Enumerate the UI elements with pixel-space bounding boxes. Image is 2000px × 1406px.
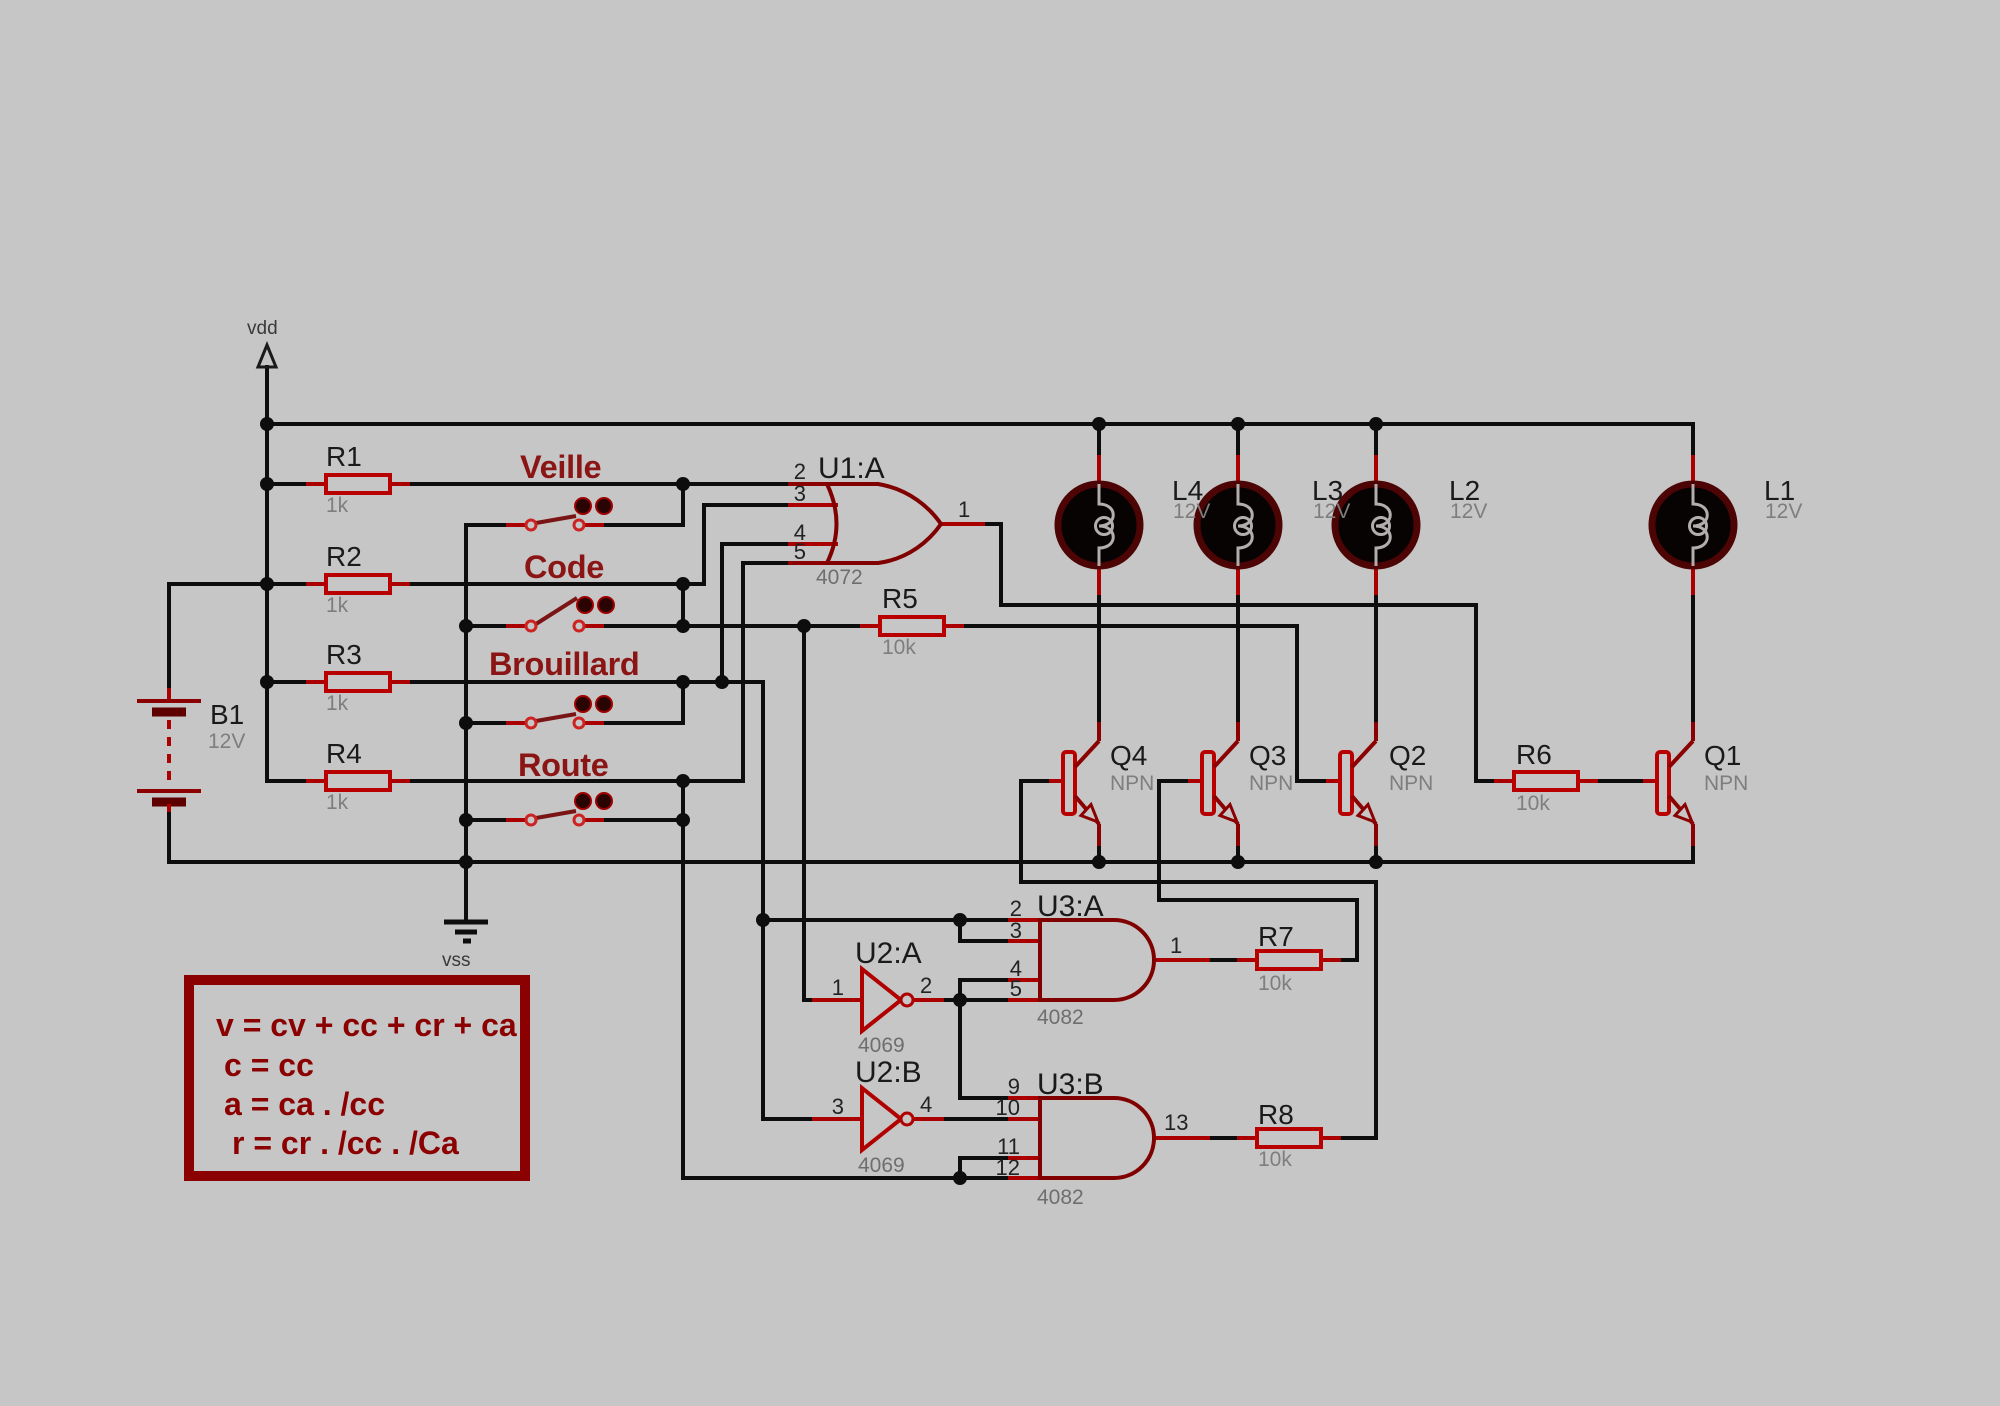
svg-text:3: 3	[1010, 918, 1022, 943]
wire L4 top column	[1097, 424, 1101, 483]
wire U2:A output row to U3:A pin5	[913, 998, 1040, 1002]
wire U3:B pin12 row	[683, 1176, 1040, 1180]
svg-text:1: 1	[832, 975, 844, 1000]
wire U2:B output row to U3:B pin10	[913, 1117, 1040, 1121]
wire Veille switch right	[583, 523, 683, 527]
svg-text:1: 1	[958, 497, 970, 522]
svg-text:12V: 12V	[208, 730, 245, 753]
svg-text:r = cr . /cc . /Ca: r = cr . /cc . /Ca	[232, 1125, 459, 1161]
svg-text:R6: R6	[1516, 739, 1552, 770]
svg-text:R1: R1	[326, 441, 362, 472]
wire L3 bottom to Q3 collector	[1236, 567, 1240, 722]
wire switch common column x466	[464, 525, 468, 862]
wire Brouillard switch left	[466, 721, 527, 725]
svg-text:1k: 1k	[326, 494, 349, 517]
wire R7 riser x1357	[1355, 900, 1359, 960]
wire U1 pin5 row	[743, 561, 793, 565]
transistor Q3	[1188, 722, 1238, 846]
wire R3 row (Brouillard net)	[267, 680, 763, 684]
svg-text:12V: 12V	[1173, 500, 1210, 523]
wire U3:A pin4 riser	[958, 980, 962, 1000]
wire Code switch left	[466, 624, 527, 628]
svg-text:12V: 12V	[1765, 500, 1802, 523]
svg-text:3: 3	[832, 1094, 844, 1119]
svg-text:R8: R8	[1258, 1099, 1294, 1130]
svg-text:5: 5	[794, 539, 806, 564]
battery B1	[137, 688, 201, 812]
wire Brouillard switch right	[583, 721, 683, 725]
wire battery plus column	[167, 584, 171, 688]
wire U1 output to corner	[985, 522, 1001, 526]
wire Brouillard drop x763	[761, 682, 765, 1119]
resistor R8	[1237, 1129, 1341, 1147]
lamp L3	[1197, 455, 1279, 595]
svg-text:10k: 10k	[1258, 1148, 1292, 1171]
svg-text:Q2: Q2	[1389, 740, 1426, 771]
wire R6 left	[1476, 779, 1514, 783]
transistor Q1	[1643, 722, 1693, 846]
wire Q3 emitter to ground	[1236, 846, 1240, 862]
inverter U2:B (4069)	[812, 1088, 944, 1150]
svg-text:U2:B: U2:B	[855, 1056, 922, 1089]
wire R4 row (Route net)	[267, 779, 743, 783]
ground vss symbol	[444, 922, 488, 941]
svg-text:B1: B1	[210, 699, 244, 730]
switch Route (closed)	[506, 793, 612, 825]
and-gate U3:B (4082)	[1008, 1098, 1210, 1178]
svg-text:R2: R2	[326, 541, 362, 572]
svg-text:NPN: NPN	[1110, 772, 1154, 795]
resistor R4	[306, 772, 410, 790]
svg-text:12V: 12V	[1313, 500, 1350, 523]
wire R8 riser x1376	[1374, 882, 1378, 1138]
wire R5 to Q2 base drop x1297	[1295, 626, 1299, 781]
wire vdd top rail	[267, 422, 1693, 426]
svg-text:4082: 4082	[1037, 1186, 1084, 1209]
lamp L2	[1335, 455, 1417, 595]
wire U1 pin4 riser x722	[720, 544, 724, 682]
svg-text:1: 1	[1170, 933, 1182, 958]
resistor R7	[1237, 951, 1341, 969]
wire L2 bottom to Q2 collector	[1374, 567, 1378, 722]
svg-text:R5: R5	[882, 583, 918, 614]
svg-text:R4: R4	[326, 738, 362, 769]
svg-text:Q1: Q1	[1704, 740, 1741, 771]
resistor R6	[1494, 772, 1598, 790]
wire Brouillard riser x683	[681, 682, 685, 723]
equation box	[189, 980, 525, 1176]
wire U3:A pin3 riser	[958, 920, 962, 941]
wire R6 right to Q1 base	[1578, 779, 1657, 783]
wire R5 row to Q2 branch	[944, 624, 1297, 628]
wire Q4 base row	[1021, 779, 1063, 783]
wire L1 bottom to Q1 collector	[1691, 567, 1695, 722]
wire r net row y882	[1021, 880, 1376, 884]
svg-text:4082: 4082	[1037, 1006, 1084, 1029]
svg-text:4: 4	[920, 1092, 932, 1117]
svg-text:U2:A: U2:A	[855, 937, 922, 970]
svg-text:5: 5	[1010, 976, 1022, 1001]
wire U2:B input row	[763, 1117, 836, 1121]
svg-text:vss: vss	[442, 950, 471, 971]
svg-text:Veille: Veille	[520, 449, 601, 485]
svg-text:10k: 10k	[1516, 792, 1550, 815]
wire vdd column	[265, 367, 269, 781]
svg-text:Route: Route	[518, 747, 609, 783]
svg-text:12V: 12V	[1450, 500, 1487, 523]
svg-text:Q4: Q4	[1110, 740, 1147, 771]
wire Route switch right	[583, 818, 683, 822]
svg-text:NPN: NPN	[1704, 772, 1748, 795]
resistor R5	[860, 617, 964, 635]
wire Route switch left	[466, 818, 527, 822]
wire ground row	[169, 860, 1693, 864]
svg-text:a = ca . /cc: a = ca . /cc	[224, 1086, 385, 1122]
svg-text:U1:A: U1:A	[818, 452, 885, 485]
svg-text:1k: 1k	[326, 692, 349, 715]
switch Code (open)	[506, 597, 614, 631]
lamp L1	[1652, 455, 1734, 595]
svg-text:Brouillard: Brouillard	[489, 646, 640, 682]
svg-text:4069: 4069	[858, 1154, 905, 1177]
wire U1 output drop x1001	[999, 524, 1003, 605]
svg-text:U3:A: U3:A	[1037, 890, 1104, 923]
svg-text:12: 12	[996, 1155, 1020, 1180]
svg-text:R3: R3	[326, 639, 362, 670]
wire R8 right	[1321, 1136, 1376, 1140]
svg-text:13: 13	[1164, 1110, 1188, 1135]
svg-text:c = cc: c = cc	[224, 1047, 314, 1083]
wire U2:A input row	[804, 998, 836, 1002]
and-gate U3:A (4082)	[1008, 920, 1210, 1000]
wire U1 pin3 riser x704	[702, 505, 706, 584]
wire U1 pin5 riser x743	[741, 563, 745, 781]
svg-text:10: 10	[996, 1095, 1020, 1120]
switch Veille (closed)	[506, 498, 612, 530]
lamp L4	[1058, 455, 1140, 595]
wire Veille switch left	[466, 523, 527, 527]
wire Q4 base drop x1021	[1019, 781, 1023, 882]
wire U3:B pin11 row	[960, 1156, 1040, 1160]
svg-text:10k: 10k	[1258, 972, 1292, 995]
svg-text:NPN: NPN	[1249, 772, 1293, 795]
wire U1 pin3 row	[704, 503, 836, 507]
svg-text:4072: 4072	[816, 566, 863, 589]
wire R1 row (Veille net to U1 pin 2)	[267, 482, 793, 486]
wire Q3 base drop x1159	[1157, 781, 1161, 900]
wire Q2 emitter to ground	[1374, 846, 1378, 862]
wire U2:A out to U3:B pin9 drop x960	[958, 1000, 962, 1098]
svg-text:10k: 10k	[882, 636, 916, 659]
svg-text:3: 3	[794, 481, 806, 506]
wire Q4 emitter to ground	[1097, 846, 1101, 862]
resistor R1	[306, 475, 410, 493]
wire Q1 emitter to ground	[1691, 846, 1695, 862]
wire Q2 base row	[1297, 779, 1340, 783]
wire U3:B pin9 row	[960, 1096, 1040, 1100]
wire U3:A output row	[1155, 958, 1257, 962]
wire v net row y605	[1001, 603, 1476, 607]
wire U1 pin4 row	[722, 542, 836, 546]
wire L1 top column	[1691, 424, 1695, 483]
wire v net drop x1476	[1474, 605, 1478, 781]
wire Route column x683 down to U3:B pin12	[681, 781, 685, 1178]
svg-text:1k: 1k	[326, 594, 349, 617]
wire L2 top column	[1374, 424, 1378, 483]
wire U3:B output row	[1155, 1136, 1257, 1140]
svg-text:vdd: vdd	[247, 318, 278, 339]
wire Veille riser x683	[681, 484, 685, 525]
wire ground stem	[464, 862, 468, 920]
resistor R3	[306, 673, 410, 691]
svg-text:R7: R7	[1258, 921, 1294, 952]
transistor Q2	[1326, 722, 1376, 846]
wire Code switch right to R5	[583, 624, 880, 628]
wire Code to U2:A input drop x804	[802, 626, 806, 1000]
or-gate U1:A (4072)	[788, 484, 985, 563]
wire Code riser x683	[681, 584, 685, 626]
wire R7 right	[1321, 958, 1357, 962]
transistor Q4	[1049, 722, 1099, 846]
svg-text:Q3: Q3	[1249, 740, 1286, 771]
svg-text:2: 2	[920, 973, 932, 998]
wire U3:A pin4 row	[960, 978, 1040, 982]
svg-text:v = cv + cc + cr + ca: v = cv + cc + cr + ca	[216, 1007, 517, 1043]
svg-text:Code: Code	[524, 549, 604, 585]
resistor R2	[306, 575, 410, 593]
svg-text:1k: 1k	[326, 791, 349, 814]
wire Q3 base row	[1159, 779, 1202, 783]
switch Brouillard (closed)	[506, 696, 612, 728]
wire U3:A pin2 row	[763, 918, 1040, 922]
svg-text:U3:B: U3:B	[1037, 1068, 1104, 1101]
svg-text:4069: 4069	[858, 1034, 905, 1057]
wire R2 row (Code net)	[169, 582, 704, 586]
svg-text:NPN: NPN	[1389, 772, 1433, 795]
wire battery minus column	[167, 804, 171, 862]
wire L4 bottom to Q4 collector	[1097, 567, 1101, 722]
inverter U2:A (4069)	[812, 969, 944, 1031]
wire a net row y900	[1159, 898, 1357, 902]
power vdd arrow	[258, 345, 276, 367]
wire U3:B pin11 riser	[958, 1158, 962, 1178]
wire L3 top column	[1236, 424, 1240, 483]
wire U3:A pin3 row	[960, 939, 1040, 943]
